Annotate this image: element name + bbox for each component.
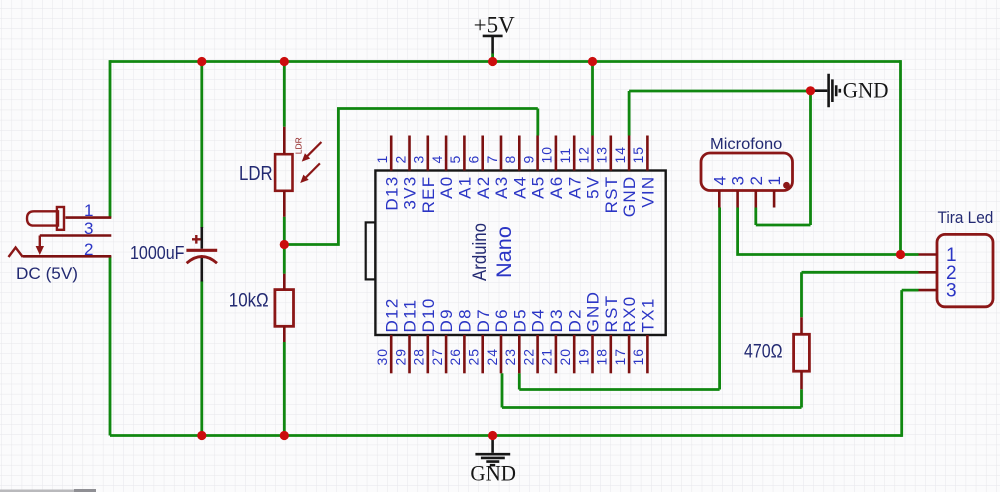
svg-text:26: 26 (447, 348, 463, 366)
U2 pin 4 stub (718, 191, 721, 208)
node junction at 492.6,61.5 (488, 57, 497, 66)
svg-text:GND: GND (470, 461, 516, 486)
svg-text:3: 3 (729, 176, 748, 185)
U1 bottom pin 19 GND stub (591, 335, 594, 373)
svg-text:Microfono: Microfono (710, 136, 782, 153)
U1 bottom pin 16 TX1 stub (646, 335, 649, 373)
svg-text:14: 14 (612, 146, 628, 164)
svg-text:9: 9 (520, 155, 536, 164)
LDR light arrow 2 (301, 163, 320, 182)
node junction at 592.5,61.5 (588, 57, 597, 66)
svg-text:Nano: Nano (492, 226, 516, 278)
svg-text:D8: D8 (456, 308, 475, 332)
wire +5V to Nano pin12 5V (591, 60, 594, 135)
U1 bottom pin 27 D9 stub (445, 335, 448, 373)
connector J1 DC pin 1 line (65, 216, 111, 219)
U2 pin 3 stub (736, 191, 739, 208)
U2 pin1 mark dot (783, 182, 790, 189)
U1 bottom pin 17 RX0 stub (628, 335, 631, 373)
resistor R2 470 body (794, 334, 810, 371)
connector J1 pin 3 line (40, 234, 112, 237)
svg-text:A2: A2 (474, 176, 493, 199)
svg-text:470Ω: 470Ω (744, 342, 783, 363)
U1 bottom pin 29 D11 stub (408, 335, 411, 373)
U2 pin 1 stub (773, 191, 776, 208)
svg-text:GND: GND (584, 291, 603, 333)
svg-text:1000uF: 1000uF (130, 242, 185, 263)
LDR stubs (283, 127, 286, 217)
svg-text:GND: GND (620, 176, 639, 218)
connector J1 switch arrow (39, 236, 41, 249)
svg-text:LDR: LDR (239, 162, 273, 185)
wire +5V to LDR top (283, 60, 286, 127)
capacitor C1 1000uF (201, 227, 204, 282)
svg-text:12: 12 (575, 146, 591, 164)
svg-text:D3: D3 (547, 308, 566, 332)
LDR R3 body (275, 154, 292, 191)
node junction at 492.6,435.5 (488, 431, 497, 440)
U1 top pin 13 RST stub (609, 136, 612, 171)
svg-text:VIN: VIN (639, 176, 658, 208)
svg-text:19: 19 (575, 348, 591, 366)
svg-text:3: 3 (411, 155, 427, 164)
U1 top pin 14 GND stub (628, 136, 631, 171)
U1 top pin 9 A5 stub (536, 136, 539, 171)
resistor R2 stubs (800, 317, 803, 389)
svg-text:GND: GND (843, 77, 889, 102)
svg-text:REF: REF (419, 176, 438, 214)
op IC U1 Arduino Nano body (375, 171, 665, 336)
svg-text:3V3: 3V3 (401, 176, 420, 210)
U1 top pin 2 3V3 stub (408, 136, 411, 171)
U1 top pin 7 A3 stub (500, 136, 503, 171)
resistor R1 10k body (275, 290, 294, 327)
svg-text:D12: D12 (382, 297, 401, 332)
svg-text:21: 21 (539, 348, 555, 366)
U1 top pin 3 REF stub (426, 136, 429, 171)
connector J1 barrel (27, 211, 58, 225)
node junction at 284.3,244.5 (280, 240, 289, 249)
node junction at 201.8,435.5 (197, 431, 206, 440)
wire DC pin2 down to GND rail (109, 256, 112, 435)
svg-text:TX1: TX1 (639, 297, 658, 332)
svg-text:RST: RST (602, 176, 621, 214)
svg-text:Tira Led: Tira Led (938, 209, 994, 227)
U1 top pin 6 A2 stub (481, 136, 484, 171)
svg-text:D7: D7 (474, 308, 493, 332)
svg-text:A3: A3 (492, 175, 511, 198)
svg-text:7: 7 (484, 155, 500, 164)
U2 pin 2 stub (754, 191, 757, 208)
wire Microfono pin3 to +5V node (738, 208, 901, 256)
svg-text:15: 15 (630, 146, 646, 164)
U1 top pin 11 A7 stub (573, 136, 576, 171)
svg-text:22: 22 (520, 348, 536, 366)
wire +5V top rail (110, 60, 901, 63)
svg-text:A5: A5 (529, 176, 548, 199)
svg-text:2: 2 (84, 240, 93, 259)
svg-text:A6: A6 (547, 176, 566, 199)
wire resistor R2 top to Tira Led pin2 (802, 272, 919, 317)
svg-text:D5: D5 (510, 308, 529, 332)
svg-text:A1: A1 (456, 176, 475, 199)
svg-text:Arduino: Arduino (470, 223, 491, 281)
svg-text:17: 17 (612, 348, 628, 366)
node junction at 201.8,61.5 (197, 57, 206, 66)
U1 top pin 4 A0 stub (445, 136, 448, 171)
svg-text:10kΩ: 10kΩ (229, 290, 269, 311)
svg-text:D2: D2 (565, 308, 584, 332)
svg-text:2: 2 (392, 155, 408, 164)
U1 bottom pin 30 D12 stub (390, 335, 393, 373)
svg-text:28: 28 (411, 348, 427, 366)
svg-text:18: 18 (594, 348, 610, 366)
svg-text:16: 16 (630, 348, 646, 366)
U1 bottom pin 18 RST stub (609, 335, 612, 373)
U1 bottom pin 20 D2 stub (573, 335, 576, 373)
svg-text:A7: A7 (565, 176, 584, 199)
svg-text:24: 24 (484, 348, 500, 366)
svg-text:LDR: LDR (294, 137, 304, 154)
U1 top pin 12 5V stub (591, 136, 594, 171)
svg-text:10: 10 (539, 146, 555, 164)
svg-text:DC (5V): DC (5V) (16, 265, 78, 283)
wire LDR divider node to Nano pin9 A5 (284, 109, 538, 246)
svg-text:D6: D6 (492, 308, 511, 332)
svg-text:4: 4 (429, 155, 445, 164)
svg-text:8: 8 (502, 155, 518, 164)
svg-text:D11: D11 (401, 299, 420, 333)
svg-text:4: 4 (710, 176, 729, 185)
svg-text:5: 5 (447, 155, 463, 164)
svg-text:3: 3 (84, 219, 93, 238)
svg-text:RX0: RX0 (620, 296, 639, 333)
node junction at 810.5,90.8 (806, 86, 815, 95)
wire Nano pin24 D6 to resistor R2 bottom (502, 373, 802, 407)
U1 top pin 10 A6 stub (555, 136, 558, 171)
U1 bottom pin 22 D4 stub (536, 335, 539, 373)
U1 bottom pin 26 D8 stub (463, 335, 466, 373)
U1 bottom pin 24 D6 stub (500, 335, 503, 373)
wire GND bottom rail (110, 434, 902, 437)
wire Nano pin14 GND up to GND symbol (629, 91, 810, 136)
svg-text:3: 3 (946, 281, 957, 302)
U1 bottom pin 28 D10 stub (426, 335, 429, 373)
wire node to Tira Led pin1 stub (901, 253, 919, 256)
wire +5V right drop to Tira Led pin1 (899, 60, 902, 254)
U1 top pin 1 D13 stub (390, 136, 393, 171)
svg-text:1: 1 (374, 155, 390, 164)
svg-text:+5V: +5V (474, 13, 515, 38)
svg-text:30: 30 (374, 348, 390, 366)
U1 top pin 15 VIN stub (646, 136, 649, 171)
connector J1 sleeve caret (9, 248, 23, 258)
svg-text:RST: RST (602, 295, 621, 333)
wire capacitor C1 bottom to GND rail (200, 281, 203, 437)
connector J1 pin 2 line (23, 255, 112, 258)
svg-text:D4: D4 (529, 308, 548, 332)
svg-text:5V: 5V (584, 176, 603, 199)
node junction at 284.3,61.5 (280, 57, 289, 66)
wire LDR bottom to resistor R1 top / node A5 (283, 217, 286, 274)
wire +5V to capacitor C1 top (200, 60, 203, 228)
wire +5V symbol tap (491, 54, 494, 62)
module U2 Microfono body (701, 153, 793, 191)
wire Nano pin23 D5 to Microfono pin4 (519, 208, 719, 390)
svg-text:27: 27 (429, 348, 445, 366)
svg-text:A4: A4 (510, 176, 529, 199)
svg-text:D13: D13 (382, 176, 401, 211)
svg-text:1: 1 (84, 201, 93, 220)
svg-text:29: 29 (392, 348, 408, 366)
U1 bottom pin 21 D3 stub (555, 335, 558, 373)
svg-text:1: 1 (765, 176, 784, 185)
svg-text:13: 13 (594, 146, 610, 164)
ground symbol top right (813, 74, 840, 108)
svg-text:2: 2 (747, 176, 766, 185)
U1 bottom pin 25 D7 stub (481, 335, 484, 373)
J2 pin stubs (919, 255, 938, 291)
U1 top pin 5 A1 stub (463, 136, 466, 171)
wire resistor R1 bottom to GND rail (283, 342, 286, 437)
svg-text:20: 20 (557, 348, 573, 366)
svg-text:D9: D9 (437, 308, 456, 332)
U1 top pin 8 A4 stub (518, 136, 521, 171)
svg-text:11: 11 (557, 147, 573, 164)
wire +5V rail left drop to DC pin1 (109, 60, 112, 218)
LDR light arrow 1 (303, 142, 322, 161)
U1 bottom pin 23 D5 stub (518, 335, 521, 373)
svg-text:25: 25 (466, 348, 482, 366)
svg-text:D10: D10 (419, 297, 438, 332)
svg-text:6: 6 (466, 155, 482, 164)
svg-text:A0: A0 (437, 176, 456, 199)
wire GND down to Microfono pin2 (756, 91, 811, 225)
U1 usb notch (366, 222, 376, 279)
decorative (0, 490, 95, 492)
node junction at 284.3,435.5 (280, 431, 289, 440)
svg-text:23: 23 (502, 348, 518, 366)
connector J2 Tira Led body (937, 234, 993, 306)
ground symbol bottom (475, 438, 510, 465)
node junction at 900.5,254.5 (896, 250, 905, 259)
+5V supply symbol (483, 36, 503, 54)
wire GND rail up to Tira Led pin3 (902, 290, 919, 437)
resistor R1 stubs (283, 274, 286, 342)
